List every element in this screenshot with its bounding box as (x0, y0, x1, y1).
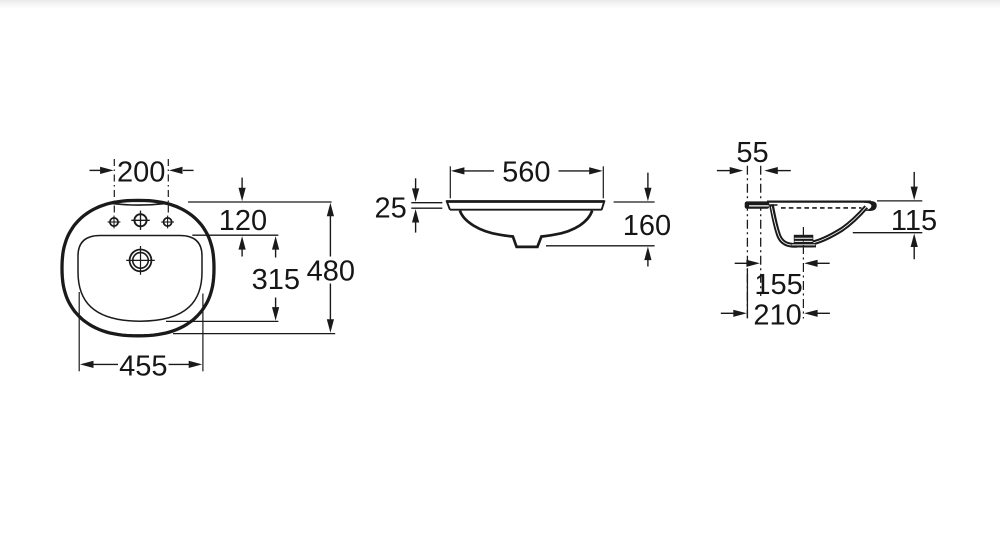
rim bottom edge (450, 209, 602, 211)
svg-text:210: 210 (753, 300, 801, 332)
dimension 160 up arrow (644, 247, 651, 267)
rim deck top edge (767, 201, 871, 203)
dimension 160 down arrow (644, 173, 651, 202)
dimension 455 left arrow (80, 361, 118, 368)
dimension 455 extension line left (78, 292, 80, 371)
rim deck underside (769, 204, 777, 206)
dimension 120 down arrow (239, 178, 246, 202)
dimension 25 pointer line bottom (411, 207, 442, 209)
rim bullnose (front overhang) (745, 201, 770, 208)
centerline wall side (dash-dot) (746, 166, 748, 318)
dimension 315 down arrow (272, 298, 279, 321)
dimension 480 line upper segment with up arrow (327, 203, 334, 257)
svg-text:25: 25 (374, 193, 406, 225)
dimension 115 reference line top (877, 200, 922, 202)
dimension 25 pointer line top (411, 202, 442, 204)
rim back edge hook (864, 201, 877, 211)
dimension 480 reference line bottom (173, 333, 335, 335)
rim top edge (446, 200, 604, 203)
drain hole (126, 246, 155, 275)
dimension 155 right arrow (804, 260, 830, 267)
dimension 210 right arrow (804, 310, 830, 317)
dimension 455 right arrow (169, 361, 203, 368)
dimension 120 up arrow (239, 236, 246, 256)
dimension 200 extension line right (dash-dot) (167, 159, 169, 214)
svg-text:560: 560 (502, 157, 550, 189)
svg-text:115: 115 (891, 205, 937, 237)
hidden counter edge (dashed) (781, 207, 862, 209)
svg-text:55: 55 (736, 137, 768, 169)
dimension 25 up arrow (412, 209, 419, 233)
dimension 210 left arrow (721, 310, 747, 317)
dimension 560 left arrow (451, 167, 494, 174)
dimension 120 reference line bottom (192, 234, 278, 236)
drain fitting with ribs (791, 235, 816, 248)
dimension 25 down arrow (412, 178, 419, 202)
svg-text:155: 155 (754, 269, 802, 301)
dimension 315 reference line bottom (166, 320, 278, 322)
top deck inner edge line (113, 204, 166, 206)
bowl wall right section (811, 207, 866, 243)
svg-text:480: 480 (307, 255, 355, 287)
dimension 200 right arrow (169, 167, 194, 174)
svg-text:160: 160 (623, 210, 671, 242)
tap hole left (108, 216, 121, 229)
bowl wall left section (771, 205, 797, 246)
dimension 200 extension line left (dash-dot) (113, 159, 115, 214)
dimension 115 reference line bottom (853, 232, 923, 234)
dimension 160 reference line bottom (546, 245, 655, 247)
tap hole right (161, 216, 174, 229)
dimension 120 reference line top (188, 201, 332, 203)
svg-text:455: 455 (119, 350, 167, 382)
bowl outline with drain (460, 211, 592, 247)
dimension 55 left arrow (717, 167, 743, 174)
inner basin outline (78, 236, 202, 322)
outer rim ellipse (62, 200, 214, 335)
dimension 560 extension line left (449, 166, 451, 198)
svg-text:315: 315 (252, 264, 300, 296)
drain centerline (dash-dot) (802, 227, 804, 319)
tap hole middle (131, 211, 149, 230)
dimension 55 right arrow (764, 167, 791, 174)
dimension 560 right arrow (559, 167, 603, 174)
svg-text:120: 120 (219, 205, 267, 237)
rim left end (446, 200, 450, 209)
dimension 115 up arrow (911, 234, 918, 260)
dimension 560 extension line right (602, 166, 604, 198)
dimension 480 line lower segment with down arrow (327, 284, 334, 333)
dimension 115 down arrow (911, 172, 918, 200)
rim right end (602, 200, 605, 209)
dimension 315 up arrow (272, 236, 279, 257)
centerline rim front (dash-dot) (760, 166, 762, 296)
dimension 160 reference line top (614, 201, 655, 203)
svg-text:200: 200 (117, 157, 165, 189)
dimension 200 left arrow (90, 167, 114, 174)
dimension 155 left arrow (735, 260, 760, 267)
dimension 455 extension line right (202, 294, 204, 372)
